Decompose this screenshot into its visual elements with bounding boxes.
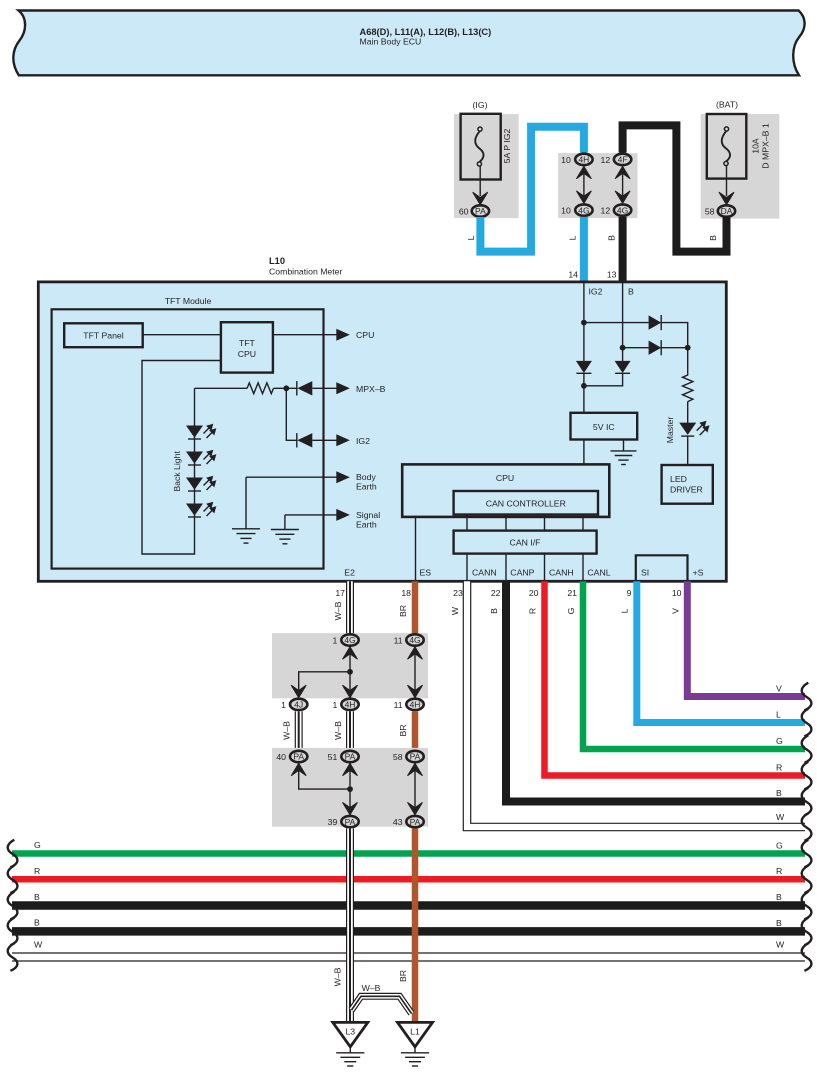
svg-text:+S: +S xyxy=(693,567,704,577)
svg-text:W–B: W–B xyxy=(282,721,292,740)
svg-text:R: R xyxy=(34,866,40,876)
svg-text:Back Light: Back Light xyxy=(172,451,182,492)
connector 4H xyxy=(575,154,592,165)
ground 5V IC xyxy=(611,451,637,465)
wire BR 4H to PA xyxy=(412,711,419,750)
svg-text:CPU: CPU xyxy=(356,330,374,340)
wire master LED to LED DRIVER xyxy=(687,436,689,465)
svg-text:B: B xyxy=(776,918,782,928)
svg-text:12: 12 xyxy=(601,206,611,216)
wire G CANL xyxy=(583,581,805,749)
svg-text:B: B xyxy=(489,608,499,614)
fuse symbol 5A P IG2 xyxy=(475,127,483,166)
wire B black from DA to 4F xyxy=(623,125,727,251)
svg-text:W–B: W–B xyxy=(362,983,381,993)
diode MPX-B xyxy=(297,381,313,395)
svg-text:4H: 4H xyxy=(410,700,421,710)
wire 5V IC to CPU xyxy=(583,440,585,465)
wire 5V IC to ground xyxy=(623,440,625,451)
svg-text:51: 51 xyxy=(328,752,338,762)
CAN I/F box xyxy=(454,531,597,554)
connector 4G left xyxy=(575,204,592,215)
svg-text:B: B xyxy=(708,235,718,241)
svg-text:10: 10 xyxy=(672,588,682,598)
svg-text:A68(D), L11(A), L12(B), L13(C): A68(D), L11(A), L12(B), L13(C) xyxy=(360,27,492,37)
svg-text:E2: E2 xyxy=(344,567,355,577)
svg-text:Earth: Earth xyxy=(356,482,377,492)
5V IC box xyxy=(571,413,638,440)
svg-text:TFT: TFT xyxy=(239,338,256,348)
svg-text:DA: DA xyxy=(721,206,733,216)
arrow CPU xyxy=(336,329,350,341)
svg-text:B: B xyxy=(628,287,634,297)
svg-text:W: W xyxy=(776,940,785,950)
svg-text:MPX–B: MPX–B xyxy=(356,384,386,394)
svg-text:4G: 4G xyxy=(578,205,589,215)
svg-text:13: 13 xyxy=(607,270,617,280)
svg-text:BR: BR xyxy=(398,605,408,617)
svg-text:L3: L3 xyxy=(345,1026,355,1036)
svg-text:B: B xyxy=(776,892,782,902)
TFT Panel box xyxy=(64,323,143,347)
LED backlight 3 xyxy=(186,476,216,491)
wire row1 to diode D1 xyxy=(584,322,649,324)
CAN CONTROLLER box xyxy=(454,491,598,515)
svg-text:W–B: W–B xyxy=(333,967,343,986)
svg-text:4H: 4H xyxy=(345,700,356,710)
wire CANN xyxy=(466,554,468,582)
wire Body Earth xyxy=(246,476,337,478)
svg-text:G: G xyxy=(776,736,783,746)
svg-text:Signal: Signal xyxy=(356,510,380,520)
svg-text:TFT Panel: TFT Panel xyxy=(83,331,123,341)
connector PA 40 xyxy=(290,751,307,762)
junction dot MPX-B xyxy=(283,385,289,391)
junction arrows 4H to 4G xyxy=(576,166,591,203)
svg-text:10: 10 xyxy=(561,155,571,165)
bus W horizontal xyxy=(12,953,805,961)
connector 4F xyxy=(614,154,631,165)
ground body earth xyxy=(232,529,260,543)
svg-text:PA: PA xyxy=(410,817,421,827)
svg-text:CAN I/F: CAN I/F xyxy=(510,538,541,548)
wire L cyan from PA to 4H xyxy=(480,127,584,252)
bus B horizontal 2 xyxy=(12,927,805,936)
node IG2 internal line xyxy=(583,282,585,362)
arrow IG2 xyxy=(336,434,350,446)
svg-text:Combination Meter: Combination Meter xyxy=(269,267,343,277)
fuse box BAT xyxy=(707,114,747,179)
stubs CAN CONTROLLER to CAN I/F xyxy=(466,515,468,531)
svg-text:4G: 4G xyxy=(617,205,628,215)
wire L SI xyxy=(637,581,805,722)
torn edge right xyxy=(802,943,812,971)
wire L cyan pin 14 xyxy=(580,217,588,282)
wire resistor to master LED xyxy=(687,402,689,423)
wire W CANN xyxy=(467,581,805,827)
LED backlight 2 xyxy=(186,450,216,465)
connector shade band row 1 xyxy=(272,633,428,698)
svg-text:G: G xyxy=(566,607,576,614)
arrow Signal Earth xyxy=(336,509,350,521)
connector 4H (BR) xyxy=(406,699,423,710)
svg-text:L: L xyxy=(466,235,476,240)
svg-text:W–B: W–B xyxy=(333,721,343,740)
connector 4G right xyxy=(614,204,631,215)
junction arrows 4G to 4H with branch xyxy=(291,647,357,698)
svg-text:1: 1 xyxy=(332,636,337,646)
connector 4G (W-B) xyxy=(341,634,358,645)
wire TFT Panel to TFT CPU xyxy=(143,334,221,336)
ground L1 xyxy=(398,1022,433,1066)
torn edge right xyxy=(802,813,812,841)
wire CANH xyxy=(544,554,546,582)
connector DA (BAT) xyxy=(718,205,735,216)
diode D4 down on B line xyxy=(615,361,631,373)
svg-text:IG2: IG2 xyxy=(589,287,603,297)
svg-text:5V IC: 5V IC xyxy=(593,422,615,432)
wire CANL xyxy=(582,554,584,582)
LED backlight 1 xyxy=(186,424,216,439)
svg-text:W: W xyxy=(450,606,460,615)
wire W-B pin 17 xyxy=(346,581,354,633)
torn edge left bus xyxy=(8,892,18,920)
svg-text:4G: 4G xyxy=(344,635,355,645)
banner torn band: Main Body ECU xyxy=(13,11,804,76)
connector shade band row 2 xyxy=(272,748,428,827)
bus R horizontal xyxy=(12,876,805,883)
connector PA 58 xyxy=(406,751,423,762)
svg-text:60: 60 xyxy=(459,207,469,217)
LED master xyxy=(679,421,709,436)
svg-text:PA: PA xyxy=(410,752,421,762)
torn edge left bus xyxy=(8,918,18,946)
torn edge right xyxy=(802,683,812,711)
svg-text:CAN CONTROLLER: CAN CONTROLLER xyxy=(486,499,566,509)
wire R CANH xyxy=(545,581,806,775)
svg-text:(BAT): (BAT) xyxy=(716,100,738,110)
arrow MPX-B xyxy=(336,382,350,394)
torn edge right xyxy=(802,918,812,946)
junction arrows PA40/PA51 to PA39 with branch xyxy=(291,763,357,815)
wire resistor to diode xyxy=(274,387,298,389)
svg-text:21: 21 xyxy=(567,588,577,598)
CPU box xyxy=(402,464,609,517)
svg-text:4F: 4F xyxy=(618,155,628,165)
wire diode to MPX-B output xyxy=(312,387,337,389)
connector shade band IG xyxy=(454,114,519,218)
svg-text:PA: PA xyxy=(293,752,304,762)
svg-text:V: V xyxy=(776,683,782,693)
svg-text:Main Body ECU: Main Body ECU xyxy=(360,37,422,47)
svg-text:G: G xyxy=(776,840,783,850)
wire fuse IG to PA xyxy=(479,166,481,196)
svg-text:10A: 10A xyxy=(751,138,761,154)
svg-text:IG2: IG2 xyxy=(356,436,370,446)
diode D2 right-pointing xyxy=(649,340,662,355)
svg-text:43: 43 xyxy=(393,817,403,827)
svg-text:CPU: CPU xyxy=(496,473,514,483)
arrow into PA xyxy=(473,192,488,204)
fuse box IG xyxy=(461,114,501,180)
svg-text:12: 12 xyxy=(601,155,611,165)
svg-text:39: 39 xyxy=(328,817,338,827)
wire MPX-B row left xyxy=(195,387,248,389)
ground L3 xyxy=(333,1022,368,1066)
svg-text:B: B xyxy=(607,235,617,241)
bus G horizontal xyxy=(12,850,805,857)
wire W-B bridge to L1 xyxy=(352,996,412,1013)
torn edge left bus xyxy=(8,866,18,894)
SI box xyxy=(636,555,688,581)
torn edge left bus xyxy=(8,943,18,971)
wire W-B 4J to PA xyxy=(295,711,303,750)
wire D4 joins IG2 line xyxy=(584,373,623,386)
svg-text:R: R xyxy=(776,866,782,876)
svg-text:11: 11 xyxy=(394,636,403,646)
connector PA (IG) xyxy=(472,205,489,216)
svg-text:ES: ES xyxy=(420,567,432,577)
diode D1 right-pointing xyxy=(649,315,662,330)
TFT CPU box xyxy=(221,322,273,372)
junction dot above 5V IC xyxy=(581,383,587,389)
resistor MPX-B xyxy=(247,383,273,394)
connector PA 43 xyxy=(406,816,423,827)
svg-text:V: V xyxy=(671,608,681,614)
svg-text:Master: Master xyxy=(665,417,675,444)
svg-text:CANH: CANH xyxy=(549,567,574,577)
bus B horizontal 1 xyxy=(12,901,805,910)
arrow into DA xyxy=(719,192,734,204)
node B internal line xyxy=(622,282,624,362)
svg-text:4G: 4G xyxy=(409,635,420,645)
fuse symbol 10A D MPX-B 1 xyxy=(722,127,730,166)
wire BR pin 18 xyxy=(412,581,419,633)
svg-text:R: R xyxy=(528,608,538,614)
svg-text:CPU: CPU xyxy=(238,349,256,359)
svg-text:L: L xyxy=(620,608,630,613)
junction arrows 4F to 4G xyxy=(615,166,630,203)
torn edge right xyxy=(802,709,812,737)
svg-text:B: B xyxy=(34,918,40,928)
svg-text:L: L xyxy=(776,709,781,719)
wire BR PA43 to ground L1 xyxy=(412,828,419,1021)
wire W-B 4H to PA xyxy=(346,711,354,750)
connector 4J xyxy=(290,699,307,710)
torn edge right xyxy=(802,735,812,763)
svg-text:W: W xyxy=(776,812,785,822)
connector PA 39 xyxy=(341,816,358,827)
wire to body ground xyxy=(245,477,247,529)
svg-text:1: 1 xyxy=(281,700,286,710)
wire row2 to diode D2 xyxy=(623,347,649,349)
svg-text:LED: LED xyxy=(670,474,687,484)
svg-text:SI: SI xyxy=(641,567,649,577)
wire D3 to 5V IC xyxy=(583,373,585,413)
svg-text:R: R xyxy=(776,762,782,772)
svg-text:40: 40 xyxy=(276,752,286,762)
connector 4G (BR) xyxy=(406,634,423,645)
junction dot B row2 xyxy=(620,345,626,351)
svg-text:DRIVER: DRIVER xyxy=(670,485,703,495)
wire CANP xyxy=(505,554,507,582)
svg-text:W–B: W–B xyxy=(333,601,343,620)
svg-text:L10: L10 xyxy=(269,256,285,266)
wire TFT CPU to CPU output xyxy=(273,334,337,336)
torn edge right xyxy=(802,788,812,816)
arrow Body Earth xyxy=(336,471,350,483)
svg-text:W: W xyxy=(34,940,43,950)
svg-text:58: 58 xyxy=(705,207,715,217)
svg-text:Earth: Earth xyxy=(356,519,377,529)
svg-text:20: 20 xyxy=(529,588,539,598)
svg-text:58: 58 xyxy=(393,752,403,762)
wire V +S xyxy=(687,581,805,696)
wire diode to IG2 output xyxy=(312,439,337,441)
diode IG2 xyxy=(297,433,313,447)
junction dot right column xyxy=(685,345,691,351)
svg-text:L1: L1 xyxy=(410,1026,420,1036)
connector 4H (W-B) xyxy=(341,699,358,710)
svg-text:CANL: CANL xyxy=(587,567,610,577)
svg-text:18: 18 xyxy=(401,588,411,598)
wire D1 to right column xyxy=(661,323,688,374)
svg-text:11: 11 xyxy=(394,700,403,710)
torn edge right xyxy=(802,762,812,790)
svg-text:5A P IG2: 5A P IG2 xyxy=(502,129,512,164)
wire B black pin 13 xyxy=(619,217,627,282)
svg-text:CANP: CANP xyxy=(510,567,534,577)
svg-text:1: 1 xyxy=(332,700,337,710)
svg-text:CANN: CANN xyxy=(472,567,497,577)
svg-text:PA: PA xyxy=(475,206,486,216)
resistor master xyxy=(683,374,693,402)
svg-text:10: 10 xyxy=(561,206,571,216)
svg-text:9: 9 xyxy=(627,588,632,598)
svg-text:G: G xyxy=(34,840,41,850)
svg-text:22: 22 xyxy=(491,588,501,598)
svg-text:(IG): (IG) xyxy=(473,100,488,110)
LED DRIVER box xyxy=(662,465,713,504)
svg-text:PA: PA xyxy=(345,752,356,762)
wire B CANP xyxy=(506,581,805,801)
svg-text:BR: BR xyxy=(398,724,408,736)
wire fuse BAT to DA xyxy=(726,166,728,197)
svg-text:Body: Body xyxy=(356,472,376,482)
backlight loop wire xyxy=(142,361,221,555)
svg-text:4J: 4J xyxy=(294,700,303,710)
wire to signal ground xyxy=(284,515,286,530)
torn edge left bus xyxy=(8,840,18,868)
junction dot IG2 row1 xyxy=(581,320,587,326)
wire junction to IG2 diode xyxy=(286,388,297,440)
torn edge right xyxy=(802,866,812,894)
junction arrows PA58 to PA43 xyxy=(408,763,423,815)
connector PA 51 xyxy=(341,751,358,762)
svg-text:B: B xyxy=(34,892,40,902)
svg-text:4H: 4H xyxy=(578,155,589,165)
svg-text:23: 23 xyxy=(453,588,463,598)
svg-text:PA: PA xyxy=(345,817,356,827)
svg-text:14: 14 xyxy=(568,270,578,280)
wire W-B PA39 to ground L3 xyxy=(346,828,354,1021)
connector shade band middle 4H/4F xyxy=(558,153,637,218)
svg-text:B: B xyxy=(776,788,782,798)
torn edge right xyxy=(802,892,812,920)
torn edge right xyxy=(802,840,812,868)
svg-text:L: L xyxy=(568,235,578,240)
svg-text:BR: BR xyxy=(398,970,408,982)
svg-text:17: 17 xyxy=(335,588,345,598)
wire Signal Earth xyxy=(285,514,337,516)
ground signal earth xyxy=(271,530,299,544)
LED backlight 4 xyxy=(186,502,216,517)
junction arrows 4G to 4H (BR) xyxy=(408,647,423,698)
connector shade band BAT xyxy=(701,114,780,219)
wire ES from CPU xyxy=(415,517,417,581)
svg-text:TFT Module: TFT Module xyxy=(165,296,212,306)
wire D2 to right column xyxy=(661,347,688,349)
diode D3 down on IG2 line xyxy=(576,361,592,373)
svg-text:D MPX–B 1: D MPX–B 1 xyxy=(761,123,771,169)
